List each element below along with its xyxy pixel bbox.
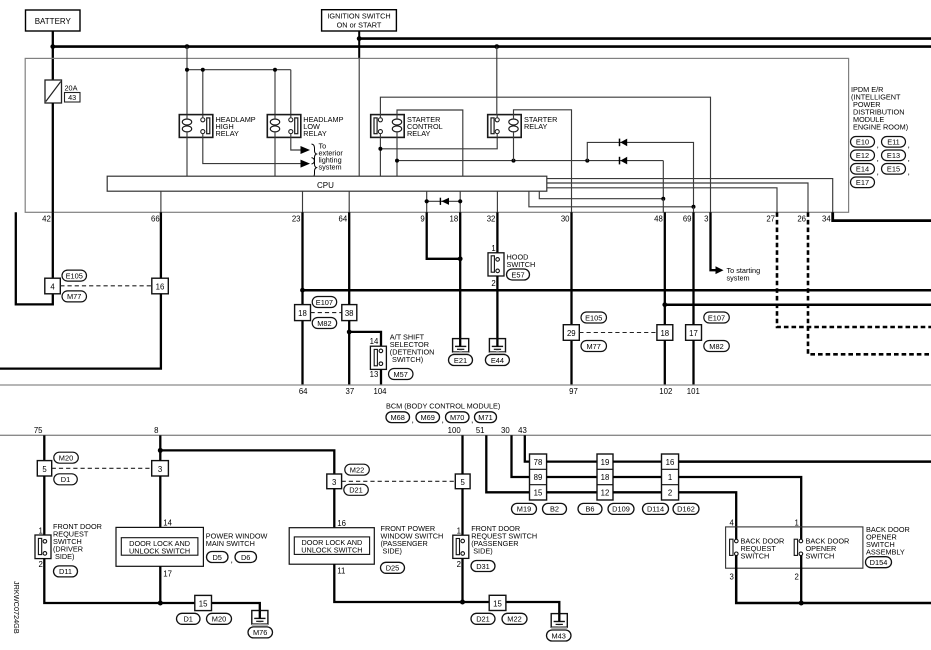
svg-text:2: 2 bbox=[38, 560, 42, 569]
wire BCM 8 to connector 3 bbox=[159, 435, 161, 460]
svg-text:15: 15 bbox=[534, 489, 543, 498]
battery B1 bbox=[26, 10, 81, 31]
wire row2 M19-B6 bbox=[547, 476, 597, 478]
svg-text:M43: M43 bbox=[552, 631, 566, 640]
svg-text:SIDE): SIDE) bbox=[55, 552, 74, 561]
connector column B6/D109 bbox=[597, 454, 613, 500]
svg-text:E44: E44 bbox=[491, 356, 504, 365]
wire contact link starter relays bbox=[380, 137, 497, 148]
svg-text:M22: M22 bbox=[350, 466, 364, 475]
svg-text:CPU: CPU bbox=[317, 181, 334, 190]
wire high relay coil to CPU bbox=[186, 137, 188, 176]
svg-text:18: 18 bbox=[298, 309, 307, 318]
relay headlamp high bbox=[179, 115, 213, 138]
wire ignition stem bbox=[358, 31, 360, 58]
svg-text:32: 32 bbox=[487, 215, 496, 224]
connector 18 b bbox=[657, 325, 673, 341]
svg-text:18: 18 bbox=[660, 329, 669, 338]
svg-text:M69: M69 bbox=[421, 413, 435, 422]
svg-text:101: 101 bbox=[687, 387, 700, 396]
dashed connector link 29-18 bbox=[579, 332, 657, 334]
connector label M82 b bbox=[704, 341, 730, 352]
ground run to connector 15b and M43 bbox=[463, 602, 560, 614]
connector label E21 bbox=[449, 355, 473, 366]
connector label D21 bbox=[344, 484, 369, 495]
wire driver request switch to ground run bbox=[44, 559, 160, 603]
svg-text:3: 3 bbox=[729, 573, 733, 582]
node starter relay feed junction bbox=[494, 44, 499, 49]
wire CPU to pin 32 bbox=[496, 191, 498, 212]
svg-text:14: 14 bbox=[163, 519, 172, 528]
svg-text:2: 2 bbox=[668, 489, 672, 498]
connector label E107 bbox=[312, 297, 337, 308]
wire pin 69 to BCM 101 bbox=[692, 212, 694, 324]
svg-text:E21: E21 bbox=[454, 356, 467, 365]
svg-text:38: 38 bbox=[345, 309, 354, 318]
svg-text:,: , bbox=[877, 167, 879, 177]
connector label M22 b bbox=[502, 613, 527, 624]
svg-text:5: 5 bbox=[461, 478, 466, 487]
svg-text:26: 26 bbox=[797, 215, 806, 224]
svg-text:ASSEMBLY: ASSEMBLY bbox=[866, 547, 905, 556]
svg-text:37: 37 bbox=[346, 387, 355, 396]
wire battery bus to starter relay contact bbox=[496, 47, 498, 115]
svg-text:BATTERY: BATTERY bbox=[35, 17, 72, 26]
svg-text:E12: E12 bbox=[856, 151, 869, 160]
relay internal wire stubs bbox=[187, 115, 514, 138]
svg-text:66: 66 bbox=[151, 215, 160, 224]
svg-text:14: 14 bbox=[370, 337, 379, 346]
svg-text:30: 30 bbox=[501, 426, 510, 435]
svg-text:SIDE): SIDE) bbox=[383, 546, 402, 555]
svg-text:SWITCH): SWITCH) bbox=[392, 355, 423, 364]
wire BCM 43 to splice column bbox=[525, 435, 530, 461]
svg-text:RELAY: RELAY bbox=[303, 129, 327, 138]
A/T shift selector (detention switch) M57 bbox=[370, 337, 387, 379]
connector label D1 bbox=[54, 474, 78, 485]
wire row1 B6-D114 bbox=[613, 460, 662, 462]
connector 4 (E105/M77) bbox=[45, 278, 61, 294]
svg-text:1: 1 bbox=[491, 244, 495, 253]
door lock and unlock switch passenger bbox=[289, 528, 374, 565]
connector label M20 b bbox=[207, 613, 232, 624]
svg-text:D1: D1 bbox=[183, 615, 192, 624]
wire CPU to pin 69 bbox=[529, 191, 694, 207]
svg-text:2: 2 bbox=[794, 573, 798, 582]
svg-text:12: 12 bbox=[601, 489, 610, 498]
wire door lock switch to ground run bbox=[159, 566, 161, 603]
wire pin 32 to hood switch bbox=[496, 212, 498, 253]
wire battery stem bbox=[52, 31, 54, 80]
connector 5 (M20/D1) bbox=[37, 461, 51, 476]
wire BCM 51 to splice column bbox=[486, 435, 529, 492]
connector 5 b bbox=[455, 474, 470, 489]
wire CPU to pin 34 bbox=[547, 179, 833, 213]
wire A/T switch to BCM 104 bbox=[380, 369, 382, 385]
svg-text:ENGINE ROOM): ENGINE ROOM) bbox=[853, 123, 908, 132]
node battery bus junction bbox=[50, 44, 55, 49]
svg-text:4: 4 bbox=[729, 518, 734, 527]
diode D-c between pins 9 and 18 bbox=[425, 198, 463, 205]
wire coil bottom bus to diodes bbox=[397, 160, 663, 162]
connector label D11 bbox=[54, 566, 78, 577]
diode D-b lower bbox=[620, 157, 664, 199]
connector label M22 bbox=[345, 464, 370, 475]
svg-text:D21: D21 bbox=[349, 486, 363, 495]
connector 18 (E107/M82) left bbox=[295, 305, 311, 321]
wire row3 B6-D114 bbox=[613, 491, 662, 493]
wire BCM 100 to front door request switch passenger bbox=[461, 435, 463, 474]
ground M43 bbox=[551, 614, 567, 629]
svg-text:B6: B6 bbox=[585, 505, 594, 514]
connector label M43 bbox=[547, 630, 572, 641]
svg-text:JRKWC0724GB: JRKWC0724GB bbox=[12, 581, 21, 634]
wire row3 M19-B6 bbox=[547, 491, 597, 493]
connector label M82 bbox=[312, 318, 337, 329]
IPDM E/R module box bbox=[25, 58, 848, 212]
svg-text:ON or START: ON or START bbox=[337, 20, 382, 29]
wire CPU to pin 26 bbox=[547, 183, 808, 212]
BCM top pin labels bbox=[299, 387, 700, 396]
connector M70 bbox=[446, 412, 474, 425]
wire pin 9 branch bbox=[427, 212, 461, 258]
dashed connector link 3-5 bbox=[342, 480, 456, 482]
svg-text:48: 48 bbox=[654, 215, 663, 224]
back door assembly label bbox=[866, 525, 910, 557]
connector label B6 bbox=[578, 503, 602, 514]
connector label E105 bbox=[62, 270, 87, 281]
connector E13 bbox=[882, 150, 910, 163]
svg-text:,: , bbox=[231, 554, 233, 564]
wire CPU to pin 23 bbox=[302, 191, 304, 212]
svg-text:M82: M82 bbox=[709, 342, 723, 351]
connector label E107 b bbox=[704, 312, 730, 323]
front power window switch label bbox=[381, 524, 444, 556]
svg-text:97: 97 bbox=[569, 387, 578, 396]
wire CPU to pin 64 bbox=[348, 191, 350, 212]
svg-text:SIDE): SIDE) bbox=[473, 546, 492, 555]
wire door lock passenger to ground run bbox=[334, 564, 462, 602]
node relay feed junctions bbox=[185, 68, 189, 72]
BCM bottom boundary bbox=[0, 434, 931, 436]
svg-text:51: 51 bbox=[476, 426, 485, 435]
svg-text:104: 104 bbox=[373, 387, 387, 396]
svg-text:E14: E14 bbox=[856, 165, 869, 174]
connector label M20 bbox=[54, 452, 79, 463]
svg-text:M19: M19 bbox=[517, 505, 531, 514]
svg-text:11: 11 bbox=[337, 566, 345, 575]
ignition switch SW1 bbox=[322, 10, 397, 31]
relay starter bbox=[488, 115, 522, 138]
svg-text:,: , bbox=[442, 415, 444, 425]
svg-text:E107: E107 bbox=[708, 313, 725, 322]
connector 17 (E107/M82) right bbox=[686, 325, 702, 341]
connector label E105 b bbox=[581, 312, 607, 323]
svg-text:M77: M77 bbox=[587, 342, 601, 351]
connector M71 bbox=[475, 412, 497, 423]
connector 29 (E105/M77) right bbox=[563, 325, 579, 341]
wire pin 26 dashed option bbox=[808, 212, 931, 354]
wire fuse to pin 42 bbox=[52, 103, 54, 212]
IPDM bottom pin labels bbox=[42, 215, 831, 224]
svg-text:15: 15 bbox=[199, 599, 208, 608]
svg-text:17: 17 bbox=[689, 329, 698, 338]
svg-text:D1: D1 bbox=[61, 475, 70, 484]
wire battery bus bbox=[53, 45, 931, 48]
wire request switch passenger to ground run bbox=[461, 558, 463, 602]
wire pin 30 to BCM 97 bbox=[570, 212, 572, 324]
wire power bus y290 to page right bbox=[303, 289, 931, 292]
connector 15 (D1/M20) bbox=[195, 595, 212, 610]
connector E15 bbox=[882, 164, 910, 177]
dashed connector link 5-3 bbox=[52, 467, 152, 469]
wire row1 to page right bbox=[679, 460, 931, 463]
wire headlamp relay feed bus bbox=[187, 47, 291, 115]
svg-text:E13: E13 bbox=[887, 151, 900, 160]
fuse 43 20A bbox=[45, 80, 80, 103]
svg-text:1: 1 bbox=[794, 518, 798, 527]
svg-text:D21: D21 bbox=[476, 615, 490, 624]
wire high relay contact to exterior lighting bbox=[203, 137, 301, 163]
wire connector 3b to door lock switch passenger bbox=[333, 489, 335, 528]
svg-text:M68: M68 bbox=[391, 413, 405, 422]
connector label D31 bbox=[471, 561, 495, 572]
back door request switch bbox=[730, 539, 739, 555]
wire row2 B6-D114 bbox=[613, 476, 662, 478]
svg-text:75: 75 bbox=[34, 426, 43, 435]
svg-text:D114: D114 bbox=[647, 505, 664, 514]
svg-text:D162: D162 bbox=[677, 505, 695, 514]
connector E10 bbox=[851, 137, 879, 150]
svg-text:M70: M70 bbox=[450, 413, 464, 422]
svg-text:102: 102 bbox=[659, 387, 672, 396]
wire ignition bus bbox=[359, 37, 931, 40]
wire pin 48 to BCM 102 bbox=[664, 212, 666, 324]
svg-text:9: 9 bbox=[420, 215, 424, 224]
connector E17 bbox=[851, 177, 875, 188]
svg-text:16: 16 bbox=[666, 458, 675, 467]
wire pin 27 dashed option bbox=[777, 212, 931, 327]
svg-text:SWITCH: SWITCH bbox=[741, 551, 770, 560]
arrow to exterior lighting (upper) bbox=[301, 146, 311, 154]
back door opener switch bbox=[794, 539, 803, 555]
connector label E44 bbox=[485, 355, 509, 366]
svg-text:D154: D154 bbox=[870, 558, 888, 567]
svg-text:BCM (BODY CONTROL MODULE): BCM (BODY CONTROL MODULE) bbox=[386, 401, 500, 410]
wire BCM 75 to connector 5 bbox=[43, 435, 45, 460]
wire connector 3 to door lock switch driver bbox=[159, 476, 161, 527]
wire starter control coil bottom to CPU bbox=[396, 137, 398, 176]
svg-text:3: 3 bbox=[158, 465, 162, 474]
connector E11 bbox=[882, 137, 910, 150]
wire starter relay coil top to pin 30 bbox=[514, 110, 572, 213]
svg-text:E17: E17 bbox=[856, 178, 869, 187]
svg-text:16: 16 bbox=[337, 519, 346, 528]
connector 16 bbox=[152, 278, 169, 294]
svg-text:E107: E107 bbox=[316, 298, 333, 307]
svg-text:D109: D109 bbox=[612, 505, 630, 514]
svg-text:,: , bbox=[908, 167, 910, 177]
svg-text:64: 64 bbox=[299, 387, 308, 396]
wire branch to passenger circuit bbox=[160, 450, 334, 474]
svg-text:2: 2 bbox=[491, 279, 495, 288]
dashed connector link 4-16 bbox=[60, 285, 152, 287]
connector label D25 bbox=[381, 562, 405, 573]
connector column M19/B2 bbox=[530, 454, 547, 500]
connector 15 b (D21/M22) bbox=[489, 595, 506, 610]
ground E44 bbox=[489, 339, 505, 353]
connector label E57 bbox=[507, 269, 530, 280]
svg-text:19: 19 bbox=[601, 458, 610, 467]
svg-text:64: 64 bbox=[339, 215, 348, 224]
svg-text:system: system bbox=[727, 273, 750, 282]
wire low relay coil to CPU bbox=[274, 137, 276, 176]
svg-text:UNLOCK SWITCH: UNLOCK SWITCH bbox=[301, 546, 362, 555]
svg-text:D6: D6 bbox=[241, 553, 250, 562]
wire connector 5 to front door request switch driver bbox=[43, 476, 45, 535]
wire back door opener switch to ground run bbox=[800, 556, 802, 603]
wire starter control coil top to CPU bbox=[397, 110, 463, 176]
connector column D114/D162 bbox=[662, 454, 679, 500]
IPDM E/R label bbox=[851, 85, 908, 132]
arrow to exterior lighting (lower) bbox=[301, 160, 311, 168]
dashed connector link 18-38 bbox=[311, 312, 342, 314]
wire bus y304 to page right bbox=[665, 303, 931, 306]
power window main switch label bbox=[206, 531, 268, 548]
svg-text:1: 1 bbox=[457, 527, 461, 536]
svg-text:,: , bbox=[908, 153, 910, 163]
connector label M57 bbox=[389, 369, 414, 380]
wire starter control contact top to pin 3 bbox=[380, 97, 710, 212]
connector label B2 bbox=[543, 503, 567, 514]
svg-text:3: 3 bbox=[332, 478, 336, 487]
svg-text:89: 89 bbox=[534, 473, 543, 482]
wire CPU to pin 9 bbox=[426, 191, 428, 212]
svg-text:M82: M82 bbox=[317, 319, 331, 328]
svg-text:,: , bbox=[877, 140, 879, 150]
wire pin 42 to connector 4 and hook bbox=[52, 212, 54, 278]
door lock and unlock switch driver bbox=[116, 527, 203, 566]
svg-text:E15: E15 bbox=[887, 165, 900, 174]
svg-text:RELAY: RELAY bbox=[407, 129, 431, 138]
svg-text:M57: M57 bbox=[394, 370, 408, 379]
BCM module top boundary bbox=[0, 384, 931, 386]
arrow to starting system bbox=[716, 266, 724, 274]
wire row1 M19-B6 bbox=[547, 460, 597, 462]
connector E12 bbox=[851, 150, 879, 163]
svg-text:M71: M71 bbox=[478, 413, 492, 422]
svg-text:D5: D5 bbox=[212, 553, 221, 562]
hood switch E57 bbox=[488, 244, 504, 288]
front door request switch passenger side D31 bbox=[453, 527, 469, 569]
ground E21 bbox=[453, 339, 469, 353]
svg-text:18: 18 bbox=[450, 215, 459, 224]
svg-text:2: 2 bbox=[457, 560, 461, 569]
svg-text:100: 100 bbox=[448, 426, 462, 435]
svg-text:43: 43 bbox=[68, 93, 76, 102]
wire pin 23 down to BCM 64 bbox=[301, 212, 303, 304]
wire CPU to pin 18 bbox=[459, 191, 461, 212]
node headlamp feed junction bbox=[185, 44, 190, 49]
svg-text:15: 15 bbox=[493, 599, 502, 608]
svg-text:27: 27 bbox=[766, 215, 775, 224]
relay headlamp low bbox=[267, 115, 301, 138]
BCM bottom pin labels bbox=[34, 426, 527, 435]
connector label M77 bbox=[62, 291, 87, 302]
svg-text:MAIN SWITCH: MAIN SWITCH bbox=[206, 539, 255, 548]
svg-text:SWITCH: SWITCH bbox=[507, 260, 536, 269]
wire branch to A/T shift selector bbox=[349, 332, 381, 346]
CPU box bbox=[107, 176, 547, 191]
svg-text:M77: M77 bbox=[67, 292, 81, 301]
svg-text:D31: D31 bbox=[476, 562, 490, 571]
svg-text:system: system bbox=[319, 163, 342, 172]
svg-text:M76: M76 bbox=[253, 628, 267, 637]
node ignition bus junction bbox=[357, 36, 362, 41]
svg-text:42: 42 bbox=[42, 215, 51, 224]
svg-text:8: 8 bbox=[154, 426, 158, 435]
connector label M77 b bbox=[581, 341, 607, 352]
wire starter relay coil bottom bbox=[513, 137, 515, 160]
svg-text:,: , bbox=[908, 140, 910, 150]
svg-text:30: 30 bbox=[561, 215, 570, 224]
svg-text:UNLOCK SWITCH: UNLOCK SWITCH bbox=[129, 546, 190, 555]
connector label M19 bbox=[512, 503, 537, 514]
svg-text:M20: M20 bbox=[59, 454, 73, 463]
svg-text:17: 17 bbox=[163, 570, 172, 579]
svg-text:M20: M20 bbox=[212, 615, 226, 624]
svg-text:23: 23 bbox=[292, 215, 301, 224]
wire CPU to pin 48 bbox=[539, 191, 663, 199]
connector label D162 bbox=[673, 503, 699, 514]
connector label D154 bbox=[866, 557, 892, 568]
connector label D21 b bbox=[471, 613, 495, 624]
svg-text:1: 1 bbox=[38, 526, 42, 535]
connector label D109 bbox=[608, 503, 634, 514]
svg-text:E105: E105 bbox=[585, 313, 602, 322]
connector 3 left bbox=[152, 461, 169, 476]
diode D-a upper bbox=[587, 139, 693, 207]
svg-text:20A: 20A bbox=[65, 84, 78, 93]
wire hood switch to ground E44 bbox=[496, 276, 498, 339]
svg-text:43: 43 bbox=[518, 426, 527, 435]
connector M69 bbox=[416, 412, 444, 425]
wire pin 18 to ground E21 bbox=[459, 212, 461, 338]
wire pin 64 to BCM 37 bbox=[348, 212, 350, 304]
svg-text:E57: E57 bbox=[511, 270, 524, 279]
wire pin 34 to page right bbox=[833, 212, 931, 220]
svg-text:RELAY: RELAY bbox=[524, 122, 548, 131]
relay starter control bbox=[371, 115, 405, 138]
connector 3 b (M22/D21) bbox=[327, 474, 342, 489]
wire row2 to back door opener switch bbox=[679, 477, 802, 539]
wire pin 66 to connector 16 and page left bbox=[160, 212, 162, 278]
svg-text:,: , bbox=[412, 415, 414, 425]
svg-text:1: 1 bbox=[668, 473, 672, 482]
svg-text:E11: E11 bbox=[887, 138, 900, 147]
svg-text:69: 69 bbox=[683, 215, 692, 224]
back door opener switch assembly box bbox=[726, 527, 863, 568]
connector label D1 b bbox=[177, 613, 201, 624]
svg-text:29: 29 bbox=[567, 329, 576, 338]
front door request switch driver side D11 bbox=[35, 526, 51, 569]
connector label D114 bbox=[643, 503, 669, 514]
brace exterior lighting bbox=[312, 144, 317, 164]
svg-text:34: 34 bbox=[822, 215, 831, 224]
wire back door request switch to ground run bbox=[736, 556, 931, 603]
svg-text:78: 78 bbox=[534, 458, 543, 467]
svg-text:3: 3 bbox=[704, 215, 708, 224]
